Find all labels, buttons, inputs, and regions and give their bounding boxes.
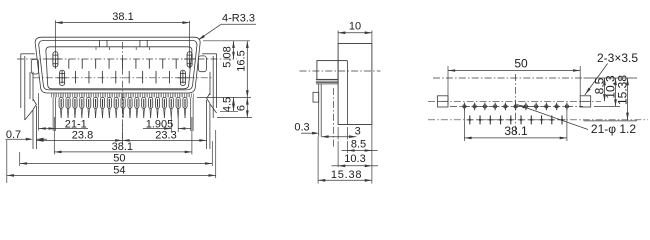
svg-text:8.5: 8.5 (351, 138, 366, 150)
svg-text:38.1: 38.1 (504, 124, 528, 138)
svg-text:50: 50 (514, 57, 528, 71)
svg-text:6: 6 (235, 105, 247, 111)
svg-text:10.3: 10.3 (344, 153, 365, 165)
svg-text:23.8: 23.8 (72, 129, 93, 141)
svg-text:21-φ 1.2: 21-φ 1.2 (591, 122, 636, 136)
svg-text:38.1: 38.1 (112, 141, 133, 153)
svg-text:15.38: 15.38 (331, 169, 363, 181)
svg-text:3: 3 (355, 126, 361, 138)
svg-text:38.1: 38.1 (112, 11, 133, 23)
svg-text:23.3: 23.3 (155, 129, 176, 141)
svg-text:54: 54 (113, 164, 125, 176)
svg-text:4.5: 4.5 (222, 97, 234, 112)
svg-text:4-R3.3: 4-R3.3 (222, 13, 255, 25)
svg-text:16.5: 16.5 (235, 50, 247, 71)
svg-text:15.38: 15.38 (616, 75, 630, 105)
svg-text:50: 50 (113, 153, 125, 165)
svg-text:10: 10 (349, 21, 361, 33)
svg-text:5.08: 5.08 (222, 46, 234, 67)
svg-text:2-3×3.5: 2-3×3.5 (597, 51, 638, 65)
svg-text:0.3: 0.3 (294, 122, 309, 134)
